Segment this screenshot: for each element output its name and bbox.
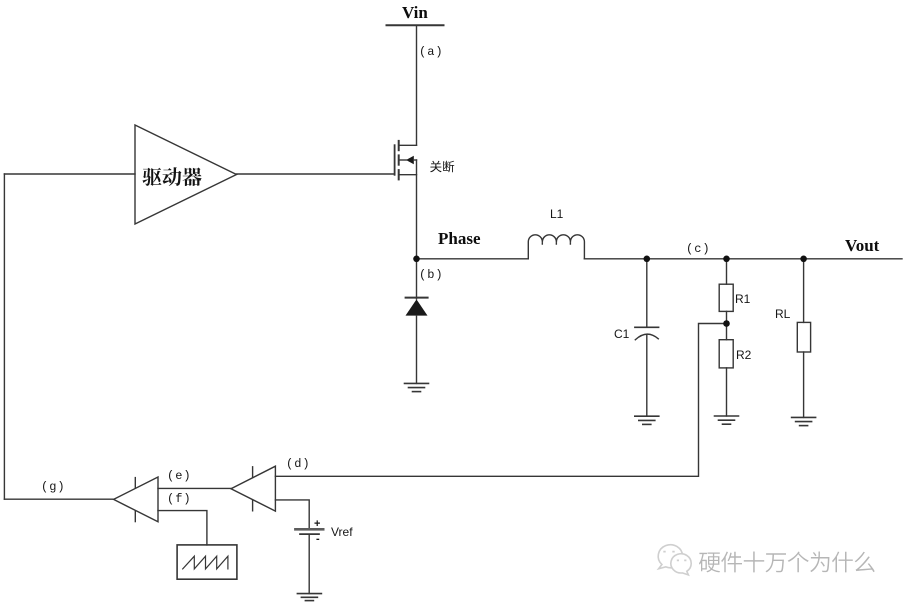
wire Phase to inductor xyxy=(417,258,529,260)
node RL junction xyxy=(800,255,807,262)
op-amp U1 driver xyxy=(135,125,237,224)
label R2 xyxy=(736,348,751,362)
ground (Vref) xyxy=(297,594,321,601)
transistor Q1 (MOSFET) xyxy=(395,141,417,259)
node c junction xyxy=(723,255,730,262)
wire left feedback vertical xyxy=(3,174,5,499)
resistor RL xyxy=(797,259,810,418)
node C1 junction xyxy=(644,255,651,262)
inductor L1 xyxy=(528,235,584,259)
wire U2 out to comparator xyxy=(158,487,231,489)
wire inductor to Vout xyxy=(584,258,902,260)
label Vref xyxy=(331,525,353,539)
op-amp U2 error amplifier xyxy=(231,466,275,511)
battery Vref xyxy=(295,529,323,593)
wire divider tap xyxy=(275,324,726,477)
wire U3 output (g) xyxy=(4,498,113,500)
label R1 xyxy=(735,292,750,306)
watermark icon bubbles xyxy=(658,545,691,575)
sawtooth generator box xyxy=(177,545,237,579)
label (g) xyxy=(41,480,66,494)
op-amp U3 comparator xyxy=(114,477,158,522)
node Vin xyxy=(387,24,444,26)
label C1 xyxy=(614,327,629,341)
label (b) xyxy=(419,268,444,282)
resistor R2 xyxy=(719,324,733,417)
label (e) xyxy=(167,469,192,483)
label (c) xyxy=(686,242,711,256)
label 关断 xyxy=(430,161,454,173)
resistor R1 xyxy=(719,259,733,324)
label Vout xyxy=(845,236,879,256)
label battery minus xyxy=(316,533,320,545)
sawtooth waveform xyxy=(183,556,228,569)
ground (RL) xyxy=(792,417,816,425)
wire comparator output to driver input xyxy=(4,173,135,175)
label Phase xyxy=(438,229,481,249)
label battery plus xyxy=(314,518,320,530)
label 驱动器 xyxy=(143,167,202,186)
node divider tap junction xyxy=(723,320,730,327)
ground (R2) xyxy=(715,416,739,424)
watermark 硬件十万个为什么 xyxy=(701,553,877,574)
wire Vin to MOSFET drain xyxy=(416,25,418,145)
label RL xyxy=(775,307,790,321)
capacitor C1 xyxy=(635,259,659,416)
ground (C1) xyxy=(635,416,659,424)
wire U2 minus to Vref xyxy=(275,500,309,528)
label (a) xyxy=(419,45,444,59)
label L1 xyxy=(550,207,563,221)
label (f) xyxy=(167,492,192,506)
label (d) xyxy=(286,457,311,471)
diode D1 xyxy=(406,259,428,384)
label Vin xyxy=(402,3,428,23)
wire U3 minus to sawtooth xyxy=(158,511,207,545)
wire driver output to gate xyxy=(237,173,395,175)
node Phase junction xyxy=(413,255,420,262)
ground (D1) xyxy=(405,383,429,391)
